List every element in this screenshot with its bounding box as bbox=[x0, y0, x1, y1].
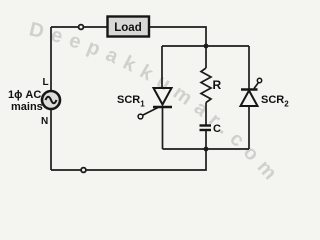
wire: SCR1 cathode lead bbox=[162, 108, 164, 150]
wire: Load to junction column bbox=[149, 27, 206, 46]
wire: inner bottom rail bbox=[163, 148, 250, 150]
gate terminal of SCR1 bbox=[138, 114, 143, 119]
svg-text:R: R bbox=[213, 78, 222, 92]
wire: R top lead bbox=[205, 46, 207, 68]
wire: left vertical, L side of AC source bbox=[50, 27, 52, 91]
wire: inner top rail bbox=[162, 45, 249, 47]
terminal node on top wire bbox=[79, 25, 84, 30]
capacitor C bbox=[200, 126, 212, 131]
svg-text:L: L bbox=[43, 77, 49, 88]
wire: SCR1 anode lead bbox=[161, 46, 163, 88]
resistor R bbox=[201, 68, 211, 103]
wire: SCR2 cathode lead bbox=[248, 46, 250, 89]
junction node: RC bottom rail / return line bbox=[204, 147, 209, 152]
gate terminal of SCR2 bbox=[257, 78, 261, 82]
load box bbox=[108, 17, 150, 37]
watermark Deepakkumar.com bbox=[27, 18, 286, 190]
svg-text:Load: Load bbox=[114, 22, 141, 34]
svg-text:N: N bbox=[41, 116, 48, 127]
svg-text:C: C bbox=[213, 123, 221, 135]
wire: R to C lead bbox=[205, 103, 207, 125]
wire: SCR2 anode lead bbox=[248, 107, 250, 149]
junction node: load line / RC top rail bbox=[204, 44, 209, 49]
AC source (1-phase mains) bbox=[42, 91, 60, 109]
terminal node on bottom wire bbox=[81, 168, 86, 173]
thyristor SCR2 (cathode top, anode bottom, gate upper-right) bbox=[241, 83, 259, 107]
wire: C bottom lead bbox=[205, 131, 207, 149]
wire: top rail, source L terminal to Load bbox=[51, 26, 107, 28]
svg-text:mains: mains bbox=[11, 101, 43, 113]
wire: left vertical, N side of AC source bbox=[50, 109, 52, 170]
svg-text:1ϕ AC: 1ϕ AC bbox=[8, 89, 41, 101]
thyristor SCR1 (anode top, cathode bottom, gate lower-left) bbox=[143, 88, 172, 115]
wire: bottom rail back to junction bbox=[51, 149, 206, 170]
